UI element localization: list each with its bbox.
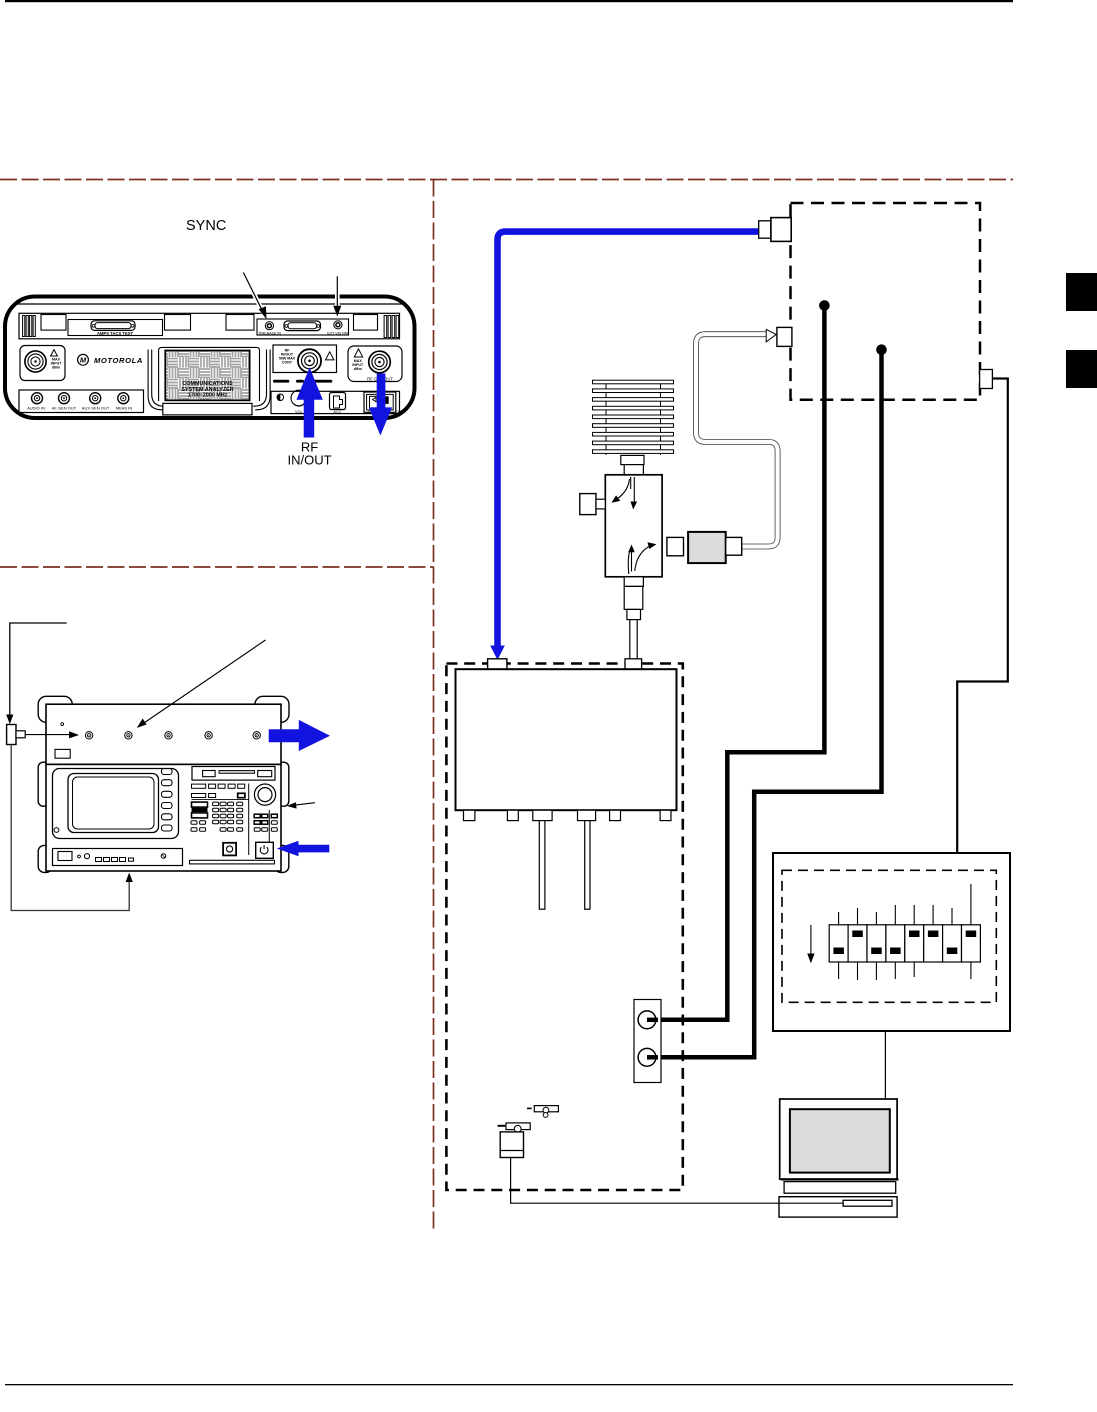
arrow RF IN/OUT (blue up) bbox=[296, 368, 322, 438]
wire breaker to laptop bbox=[884, 1031, 886, 1099]
svg-text:TIMEBASE IN: TIMEBASE IN bbox=[258, 331, 281, 335]
pointer arrow to rear connector 2 bbox=[141, 640, 266, 725]
duplexer pin 1 bbox=[539, 821, 545, 910]
cable power B (black lead) bbox=[648, 350, 882, 1058]
front shell bbox=[46, 764, 281, 871]
divider dashed horizontal upper bbox=[0, 179, 1013, 181]
duplexer dashed enclosure bbox=[446, 664, 682, 1191]
terminal stud A bbox=[638, 1011, 656, 1029]
power terminal plate bbox=[634, 1000, 661, 1083]
arrow RF GEN OUT (blue down) bbox=[369, 374, 392, 436]
connector radio right port bbox=[980, 370, 993, 389]
pointer arrow to knob bbox=[292, 803, 315, 806]
svg-text:ACC: ACC bbox=[333, 410, 341, 414]
probe tip dot B bbox=[876, 344, 887, 355]
divider dashed vertical bbox=[433, 180, 435, 1231]
pointer arrow to EXT VID connector bbox=[333, 276, 341, 316]
blank module plate 4 bbox=[354, 315, 378, 331]
open arrowhead jumper bbox=[766, 329, 776, 342]
svg-text:AUDIO IN: AUDIO IN bbox=[27, 406, 45, 411]
AMPS TACS TEST connector plate bbox=[68, 320, 163, 336]
connector BNC adapter left bbox=[7, 725, 26, 745]
DUT dashed box (radio) bbox=[791, 203, 981, 400]
svg-text:1700–2000 MHz: 1700–2000 MHz bbox=[188, 393, 228, 399]
right key grid bbox=[254, 814, 277, 824]
right vent slots bbox=[384, 316, 399, 338]
breaker panel box bbox=[773, 853, 1010, 1031]
breakers row bbox=[829, 925, 980, 962]
monitor U2 test set bbox=[38, 696, 289, 872]
connector RF cable to radio bbox=[759, 218, 792, 242]
square button bbox=[223, 843, 236, 856]
panel down arrow bbox=[810, 925, 812, 956]
connector jumper to radio bbox=[777, 327, 792, 346]
audio BNC row bbox=[19, 390, 144, 413]
blank module plate 2 bbox=[165, 315, 191, 331]
bottom control strip bbox=[53, 849, 183, 866]
vent dashes bbox=[273, 380, 332, 383]
rear small plate bbox=[55, 749, 70, 758]
bottom rule bbox=[5, 1384, 1013, 1385]
analyzer body bbox=[5, 297, 415, 419]
duplexer body bbox=[456, 669, 677, 810]
arrowhead blue down into duplexer box bbox=[490, 646, 505, 661]
cable antenna jumper (white) bbox=[696, 334, 778, 546]
laptop base bbox=[779, 1197, 897, 1217]
rotary knob bbox=[254, 784, 275, 805]
circulator output shaft bbox=[624, 577, 643, 587]
laptop display bbox=[780, 1099, 897, 1179]
TIMEBASE connector plate bbox=[257, 319, 349, 335]
svg-text:SYNC: SYNC bbox=[186, 218, 226, 234]
laptop keyboard bbox=[784, 1182, 896, 1194]
separator lines bbox=[248, 784, 250, 856]
corner bumpers bbox=[38, 696, 289, 872]
left key bars bbox=[192, 802, 208, 807]
rear shell bbox=[46, 704, 281, 764]
svg-text:VOL: VOL bbox=[295, 410, 303, 414]
left small keys bbox=[191, 821, 206, 832]
page tab square 2 bbox=[1066, 350, 1097, 388]
wire adapter to laptop bbox=[511, 1158, 845, 1204]
key row 2 bbox=[192, 793, 245, 797]
CRT screen bbox=[68, 774, 159, 833]
svg-text:EXT VID PAT: EXT VID PAT bbox=[327, 331, 349, 335]
blank module plate 1 bbox=[41, 315, 66, 331]
Motorola logo bbox=[78, 354, 89, 365]
volume knob bbox=[291, 390, 307, 406]
laptop touchpad bbox=[843, 1200, 892, 1206]
connector blue cable foot bbox=[488, 659, 507, 669]
stud lead stubs bbox=[647, 1018, 658, 1023]
RF GEN OUT panel bbox=[348, 346, 402, 382]
svg-text:AMPS TACS TEST: AMPS TACS TEST bbox=[97, 331, 134, 336]
svg-text:MEAS IN: MEAS IN bbox=[116, 406, 133, 411]
analyzer U1 rear panel bbox=[5, 297, 415, 419]
numeric keypad bbox=[213, 802, 243, 831]
page tab square 1 bbox=[1066, 273, 1097, 311]
circulator body bbox=[605, 475, 662, 577]
attenuator AT1 bbox=[688, 532, 726, 563]
handle bar bbox=[163, 403, 252, 415]
attenuator right connector bbox=[726, 537, 742, 555]
rear connectors row bbox=[85, 732, 260, 739]
serial adapter plug 2 bbox=[498, 1123, 531, 1132]
contrast icon bbox=[277, 394, 284, 401]
wire loop to front input bbox=[11, 745, 129, 911]
breaker wires bottom bbox=[839, 962, 971, 980]
cable data C to breaker panel bbox=[957, 379, 1008, 854]
pointer arrow to rear connector 1 bbox=[25, 734, 72, 736]
power key bbox=[256, 842, 274, 858]
top rule bbox=[5, 0, 1013, 2]
serial adapter plug 1 bbox=[527, 1106, 558, 1118]
svg-text:dBm: dBm bbox=[52, 366, 60, 370]
blank module plate 3 bbox=[226, 315, 254, 331]
probe tip dot A bbox=[819, 300, 830, 311]
interface pod bbox=[500, 1132, 523, 1158]
svg-text:MOTOROLA: MOTOROLA bbox=[94, 356, 143, 365]
circulator tuning knob bbox=[580, 494, 596, 515]
svg-text:CONT: CONT bbox=[282, 361, 293, 365]
attenuator left connector bbox=[667, 537, 684, 555]
divider dashed horizontal lower-left bbox=[0, 566, 434, 568]
cable power A (red lead) bbox=[648, 306, 824, 1020]
laptop screen bbox=[790, 1109, 890, 1172]
ACC connector icon bbox=[330, 393, 346, 410]
rear screw hole bbox=[61, 723, 64, 726]
arrow video out (blue right) bbox=[269, 720, 330, 751]
disk drive bar bbox=[192, 767, 275, 781]
breaker panel inner dashed bbox=[782, 870, 996, 1002]
circulator neck top bbox=[621, 455, 644, 464]
CRT bezel bbox=[53, 769, 179, 839]
breaker wires top bbox=[839, 884, 971, 925]
connector shaft foot bbox=[625, 659, 642, 669]
body inner top line bbox=[16, 303, 403, 305]
pointer arrow to TIMEBASE IN bbox=[243, 273, 266, 320]
center recess outline bbox=[159, 347, 260, 355]
label RF IN/OUT bbox=[287, 440, 331, 468]
breaker switch marks bbox=[833, 931, 976, 955]
MAX INPUT BNC panel left bbox=[20, 346, 65, 381]
control row panel bbox=[271, 391, 400, 413]
soft keys bbox=[162, 769, 173, 832]
power switch bbox=[364, 392, 396, 412]
laptop hinge line bbox=[781, 1178, 899, 1180]
heat sink fins bbox=[593, 380, 674, 455]
bottom vent bar bbox=[190, 860, 275, 864]
RF IN/OUT panel bbox=[273, 345, 337, 373]
wire sync-in top bbox=[10, 623, 67, 720]
duplexer pin 2 bbox=[585, 821, 590, 910]
svg-text:M: M bbox=[80, 356, 87, 365]
svg-text:IN/OUT: IN/OUT bbox=[287, 453, 331, 468]
handle left arm bbox=[148, 350, 163, 410]
analyzer nameplate (hatched) bbox=[165, 351, 249, 401]
svg-text:dBm: dBm bbox=[354, 367, 362, 371]
terminal stud B bbox=[638, 1048, 656, 1066]
arrow power (blue left) bbox=[277, 841, 330, 857]
key row 1 bbox=[192, 784, 245, 788]
left vent slots bbox=[23, 316, 36, 337]
flow arrows inside circulator bbox=[616, 477, 650, 574]
svg-text:0: 0 bbox=[368, 410, 370, 414]
cable RF blue bbox=[498, 232, 760, 646]
duplexer bottom tabs bbox=[464, 810, 672, 820]
svg-text:ON: ON bbox=[396, 410, 402, 414]
top recess panel bbox=[19, 313, 400, 339]
svg-text:AF GEN OUT: AF GEN OUT bbox=[52, 406, 77, 411]
handle right arm bbox=[255, 350, 270, 410]
svg-text:AUX GEN OUT: AUX GEN OUT bbox=[82, 406, 110, 411]
